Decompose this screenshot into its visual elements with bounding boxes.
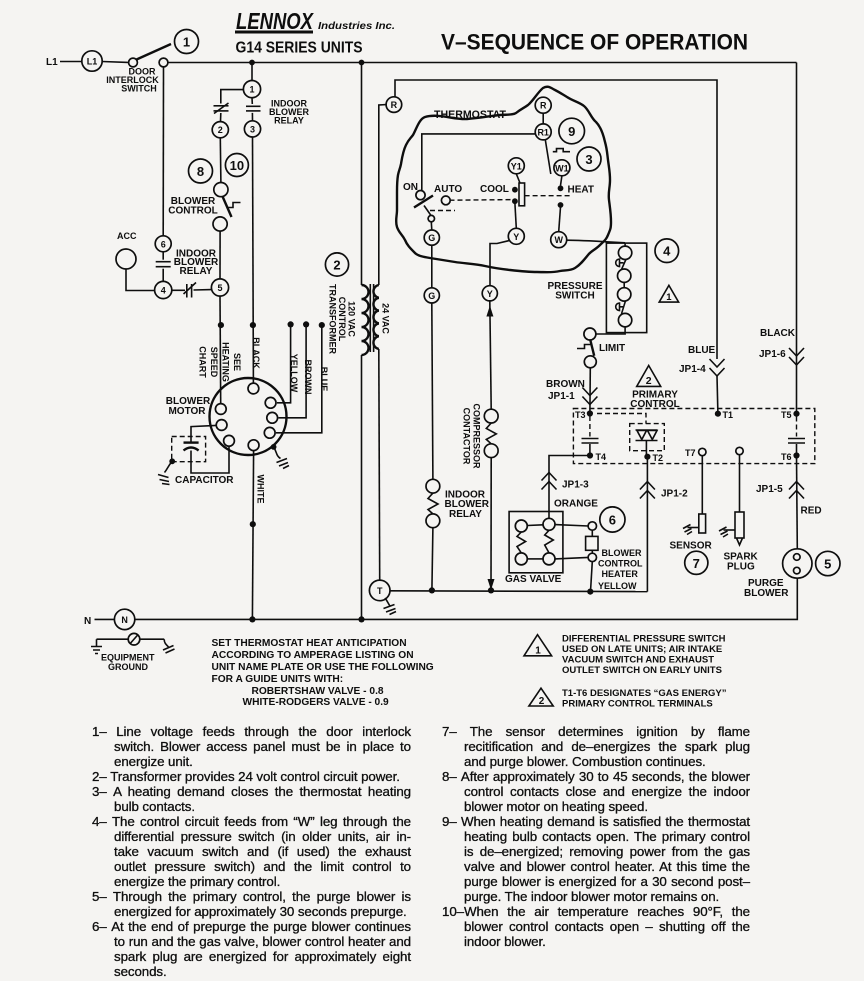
svg-text:T1: T1 [723, 410, 734, 420]
wire spark plug [739, 455, 741, 512]
svg-text:WHITE-RODGERS VALVE - 0.9: WHITE-RODGERS VALVE - 0.9 [243, 697, 390, 708]
warning triangle 1 [659, 285, 678, 303]
svg-text:OUTLET SWITCH ON EARLY UNITS: OUTLET SWITCH ON EARLY UNITS [562, 665, 722, 676]
balloon 1 [175, 30, 199, 54]
wire blower control to 5 [219, 231, 221, 279]
wire 24V common rail [390, 590, 647, 593]
svg-text:T3: T3 [575, 410, 586, 420]
terminal contact 4 [155, 281, 172, 298]
wire blue [276, 325, 322, 433]
wire T6 to purge blower [796, 456, 799, 549]
transformer T1 primary lead [361, 63, 363, 286]
terminal contact 6 [155, 236, 171, 252]
motor pin right-mid [267, 412, 278, 423]
motor pin left-upper [215, 404, 226, 415]
sensor symbol [683, 514, 706, 535]
ground at T [384, 598, 397, 615]
pressure switch flag 2 [616, 303, 623, 311]
svg-text:HEATER: HEATER [602, 569, 639, 579]
gas valve box [509, 512, 563, 573]
capacitor C1 wiring [191, 425, 216, 441]
svg-text:ROBERTSHAW VALVE - 0.8: ROBERTSHAW VALVE - 0.8 [252, 686, 384, 697]
wire W to pressure switch [567, 240, 625, 243]
node junction bus-relay1 [249, 60, 255, 66]
motor pin right-lower [264, 427, 275, 438]
svg-text:FOR A GUIDE UNITS WITH:: FOR A GUIDE UNITS WITH: [212, 674, 344, 685]
note differential pressure switch [562, 634, 726, 677]
svg-text:Y: Y [487, 289, 493, 299]
wire Y1 to bulb [516, 174, 520, 183]
wire G down [431, 245, 433, 288]
warning triangle note 2 [529, 688, 553, 707]
wire ACC to 4 [126, 269, 154, 291]
terminal N [114, 609, 134, 629]
pressure switch terminal 2 [618, 269, 631, 282]
wire ps 2-3 [623, 282, 625, 287]
wire yellow [277, 324, 291, 402]
terminal Y thermostat [508, 228, 524, 244]
node splice blue [319, 322, 325, 328]
wire R1 to fan switch [422, 134, 535, 190]
svg-text:SET THERMOSTAT HEAT ANTICIPATI: SET THERMOSTAT HEAT ANTICIPATION [212, 638, 407, 649]
motor pin top [248, 383, 259, 394]
svg-text:2: 2 [539, 696, 545, 707]
contact NO indoor blower relay (6-4) [156, 262, 171, 267]
gas valve coil 2 [543, 518, 555, 565]
svg-text:2: 2 [646, 375, 652, 387]
connector JP1-2 chevron [640, 482, 655, 499]
terminal contact 1 [243, 81, 260, 98]
node T3 [587, 410, 593, 416]
wire 5 down [219, 296, 222, 404]
svg-text:BLUE: BLUE [688, 345, 716, 356]
terminal T common [369, 580, 390, 601]
svg-text:24 VAC: 24 VAC [381, 303, 391, 334]
svg-text:GROUND: GROUND [108, 662, 148, 672]
svg-text:JP1-2: JP1-2 [661, 489, 688, 500]
wire L1 stub [60, 61, 82, 63]
node cool upper [512, 187, 518, 193]
node splice speed wire [218, 322, 224, 328]
svg-text:G14 SERIES UNITS: G14 SERIES UNITS [236, 40, 363, 57]
wire contact1 to NO contact [251, 98, 253, 104]
svg-text:10: 10 [230, 158, 244, 173]
connector JP1-4 chevron [710, 359, 725, 376]
svg-text:BROWN: BROWN [546, 379, 585, 390]
pressure switch arm 1 [622, 259, 627, 269]
wire T4 orange [549, 456, 590, 519]
svg-text:LIMIT: LIMIT [599, 343, 625, 354]
terminal spark output [736, 447, 743, 454]
balloon 5 [816, 551, 840, 575]
LENNOX logo [235, 8, 395, 34]
pressure switch arm 2 [622, 301, 626, 314]
transformer primary winding [362, 285, 369, 355]
svg-text:4: 4 [663, 244, 671, 259]
wire contact to 3 [251, 113, 253, 121]
wire to NC branch [221, 90, 244, 104]
transformer secondary winding [373, 285, 378, 349]
wire contact to 5 [194, 289, 212, 291]
equipment ground symbol [91, 633, 175, 653]
wire main 120V bus [168, 62, 797, 64]
terminal Y1 [508, 158, 524, 174]
svg-text:ON: ON [403, 182, 418, 193]
wire dashed T5 down [796, 417, 798, 437]
svg-text:G: G [428, 291, 435, 301]
svg-text:7: 7 [693, 556, 700, 571]
wire contact to T6 [796, 444, 798, 456]
svg-text:2: 2 [333, 258, 340, 273]
wire Y jog down [490, 241, 510, 286]
svg-text:SENSOR: SENSOR [670, 541, 713, 552]
svg-text:BLOWER: BLOWER [744, 588, 789, 599]
mercury bulb switch [519, 183, 525, 206]
svg-text:N: N [121, 615, 128, 625]
svg-text:YELLOW: YELLOW [289, 354, 299, 393]
arrow down on Y wire [488, 579, 495, 590]
wire contact to 2 [220, 113, 222, 122]
svg-text:T2: T2 [653, 453, 664, 463]
svg-text:3: 3 [250, 124, 255, 134]
limit switch [577, 328, 596, 368]
wire dashed T3 right [597, 414, 646, 424]
wire N stub [95, 618, 115, 620]
wire neutral rail [135, 618, 362, 620]
wire purge blower down to neutral [362, 578, 798, 619]
terminal R right [535, 97, 551, 113]
node Y common junction [488, 587, 494, 593]
pressure switch terminal 3 [618, 288, 631, 301]
primary control box dashed [573, 409, 814, 464]
contact NC indoor blower relay (1-2) [214, 103, 229, 114]
node transformer neutral junction [358, 616, 364, 622]
terminal G lower [424, 288, 439, 303]
svg-text:BLACK: BLACK [251, 337, 261, 369]
node splice white [250, 521, 256, 527]
node T4 [587, 452, 593, 458]
wire pivot to G [430, 222, 433, 230]
fan switch dashed throw [430, 210, 455, 212]
svg-text:1: 1 [666, 292, 672, 303]
motor pin left-mid [216, 420, 227, 431]
svg-text:RELAY: RELAY [180, 266, 213, 277]
wire brown [279, 324, 307, 417]
svg-text:L1: L1 [87, 57, 98, 67]
node splice brown [303, 321, 309, 327]
node white junction [249, 616, 255, 622]
svg-text:3: 3 [585, 152, 592, 167]
fan switch ON contact [416, 191, 425, 200]
wire ps top stub [624, 243, 626, 246]
compressor contactor coil K2 [484, 409, 498, 457]
indoor blower relay coil K1 [426, 479, 440, 527]
svg-text:2: 2 [218, 125, 223, 135]
svg-text:5: 5 [217, 283, 222, 293]
svg-text:JP1-1: JP1-1 [548, 391, 575, 402]
svg-text:RED: RED [801, 506, 822, 517]
svg-text:JP1-6: JP1-6 [759, 349, 786, 360]
note T1-T6 designates [562, 688, 727, 710]
node splice yellow [288, 321, 294, 327]
motor pin left-lower [224, 435, 235, 446]
svg-text:5: 5 [824, 557, 831, 572]
svg-text:T1-T6 DESIGNATES “GAS ENERGY”: T1-T6 DESIGNATES “GAS ENERGY” [562, 688, 727, 699]
svg-text:PRIMARY CONTROL TERMINALS: PRIMARY CONTROL TERMINALS [562, 699, 713, 710]
node T2 [644, 454, 650, 460]
arrow up on Y wire [486, 306, 493, 317]
wire heater to common [591, 562, 593, 592]
blower control switch [213, 183, 241, 232]
svg-text:1: 1 [249, 85, 254, 95]
wire W1 to heat node [561, 176, 562, 186]
terminal W1 [554, 160, 570, 176]
wire dashed auto to cool [450, 199, 513, 202]
pressure switch terminal 1 [618, 246, 631, 259]
warning triangle 2 [637, 366, 661, 388]
svg-text:JP1-4: JP1-4 [679, 364, 706, 375]
wire gas valve to heater top [555, 525, 588, 526]
svg-text:T5: T5 [781, 410, 792, 420]
svg-text:SEEHEATINGSPEEDCHART: SEEHEATINGSPEEDCHART [197, 342, 242, 382]
motor frame ground [271, 444, 289, 469]
capacitor case ground [158, 458, 175, 484]
node G common junction [429, 587, 435, 593]
notes column left [92, 724, 411, 979]
terminal T7 sensor [699, 448, 706, 455]
pressure switch terminal 4 [618, 313, 631, 326]
svg-text:R: R [391, 100, 398, 110]
svg-text:G: G [428, 233, 435, 243]
svg-text:Y1: Y1 [511, 161, 522, 171]
svg-text:JP1-5: JP1-5 [756, 484, 783, 495]
svg-text:WHITE: WHITE [256, 475, 266, 504]
wire bulb to Y [515, 203, 516, 228]
fan switch lever [414, 196, 433, 208]
wire contact to 4 [162, 269, 164, 282]
terminal Y lower [482, 286, 497, 301]
node T5 [793, 411, 799, 417]
node T1 [715, 411, 721, 417]
motor pin bottom [248, 440, 259, 451]
svg-text:YELLOW: YELLOW [598, 581, 637, 591]
node heat lower [558, 202, 564, 208]
balloon 2 [325, 253, 348, 276]
triac assembly [630, 424, 665, 457]
transformer secondary top lead [379, 105, 386, 285]
svg-text:9: 9 [568, 124, 575, 139]
wire black drop right side [796, 63, 798, 414]
connector JP1-1 chevron [582, 388, 597, 405]
node junction bus-transformer [359, 60, 365, 66]
svg-text:V–SEQUENCE OF OPERATION: V–SEQUENCE OF OPERATION [441, 30, 748, 55]
wire limit to T3 [589, 368, 591, 414]
thermostat enclosure blob [396, 87, 611, 273]
svg-text:R1: R1 [537, 127, 549, 137]
wire heat to W [559, 207, 561, 232]
svg-text:ACC: ACC [117, 231, 137, 241]
svg-text:BLACK: BLACK [760, 328, 796, 339]
svg-text:BROWN: BROWN [303, 360, 313, 395]
pressure switch flag 1 [616, 259, 624, 267]
wire contact to T4 [589, 444, 591, 456]
balloon 8 [189, 159, 213, 183]
svg-text:VACUUM SWITCH AND EXHAUST: VACUUM SWITCH AND EXHAUST [562, 655, 714, 666]
balloon 10 [225, 154, 248, 177]
terminal contact 5 [211, 279, 228, 296]
capacitor case dashed [172, 437, 206, 462]
terminal contact 2 [212, 122, 228, 138]
wire G to relay coil [432, 303, 433, 479]
svg-text:SWITCH: SWITCH [121, 84, 157, 94]
terminal ACC [116, 249, 136, 269]
wire door interlock down to relay contact 6 [162, 67, 164, 236]
wire 2 down to blower control [219, 138, 222, 183]
svg-text:GAS VALVE: GAS VALVE [505, 574, 562, 585]
notes column right [442, 724, 750, 949]
balloon 3 [577, 147, 601, 171]
wire gas valve bottom to heater bottom [555, 557, 588, 559]
node yellow junction [587, 589, 593, 595]
svg-text:1: 1 [535, 646, 541, 657]
svg-text:USED ON LATE UNITS; AIR INTAKE: USED ON LATE UNITS; AIR INTAKE [562, 644, 722, 655]
blower control heater terminal top [588, 522, 596, 530]
svg-text:L1: L1 [46, 57, 58, 68]
contact primary T5-T6 [788, 439, 805, 444]
fan switch pivot [428, 215, 434, 221]
svg-text:N: N [84, 616, 91, 627]
contact NC indoor blower relay (4-5) [184, 283, 197, 298]
svg-text:120 VACCONTROLTRANSFORMER: 120 VACCONTROLTRANSFORMER [327, 284, 356, 354]
note set thermostat heat anticipation [212, 638, 434, 708]
wire gas valve top link [527, 524, 543, 527]
svg-text:BLUE: BLUE [319, 367, 329, 392]
contact primary T3-T4 [582, 439, 599, 444]
svg-text:T7: T7 [685, 448, 696, 458]
terminal L1 [82, 51, 102, 71]
svg-text:BLOWER: BLOWER [602, 548, 642, 558]
svg-text:Industries Inc.: Industries Inc. [318, 20, 395, 32]
terminal G thermostat [424, 230, 439, 245]
svg-text:CONTROL: CONTROL [168, 206, 217, 217]
contact NO indoor blower relay (1-3) [246, 106, 261, 111]
svg-text:DIFFERENTIAL PRESSURE SWITCH: DIFFERENTIAL PRESSURE SWITCH [562, 634, 726, 645]
svg-text:PLUG: PLUG [727, 562, 755, 573]
svg-text:RELAY: RELAY [449, 509, 482, 520]
wire R bus 24V [395, 80, 717, 359]
transformer secondary bottom lead [378, 349, 381, 580]
wire relay1 feed down [251, 63, 253, 81]
wire white down [252, 451, 253, 620]
svg-text:COMPRESSORCONTACTOR: COMPRESSORCONTACTOR [462, 403, 482, 469]
node splice black wire [250, 322, 256, 328]
balloon 7 [685, 551, 708, 574]
wire sensor [701, 456, 703, 514]
wire gas valve bottom link [527, 558, 543, 560]
wire dashed bulb to heat [525, 195, 572, 197]
svg-text:COOL: COOL [480, 184, 509, 195]
svg-text:ACCORDING TO AMPERAGE LISTING: ACCORDING TO AMPERAGE LISTING ON [212, 650, 414, 661]
balloon 9 [559, 118, 585, 144]
svg-text:6: 6 [161, 239, 166, 249]
svg-text:Y: Y [513, 232, 519, 242]
svg-text:4: 4 [161, 286, 166, 296]
svg-text:W: W [554, 235, 563, 245]
door interlock switch S1 [129, 44, 171, 67]
purge blower motor [783, 549, 812, 578]
svg-text:HEAT: HEAT [568, 185, 594, 196]
balloon 6 [600, 507, 625, 532]
terminal W [551, 232, 567, 248]
svg-text:8: 8 [197, 164, 204, 179]
connector JP1-5 chevron [789, 482, 804, 499]
node heat upper [558, 185, 564, 191]
svg-text:T6: T6 [781, 452, 792, 462]
blower motor B1 [210, 378, 287, 455]
fan switch AUTO contact [441, 196, 450, 205]
wire 3 down black [252, 137, 255, 383]
svg-text:UNIT NAME PLATE OR USE THE FOL: UNIT NAME PLATE OR USE THE FOLLOWING [212, 662, 434, 673]
balloon 4 [655, 239, 679, 263]
terminal contact 3 [244, 121, 260, 137]
terminal R1 [535, 124, 551, 140]
svg-text:CAPACITOR: CAPACITOR [175, 475, 234, 486]
wire T2 down [646, 457, 648, 592]
wire 4 to NC contact [172, 289, 185, 291]
svg-text:LENNOX: LENNOX [236, 8, 314, 34]
svg-text:SWITCH: SWITCH [555, 291, 594, 302]
wire blue to T1 [716, 376, 719, 414]
wire Y down with arrow [490, 301, 491, 409]
svg-text:W1: W1 [555, 163, 569, 173]
svg-text:T4: T4 [596, 452, 607, 462]
wire coil to common [432, 528, 433, 591]
svg-text:AUTO: AUTO [434, 184, 462, 195]
connector JP1-6 chevron [789, 348, 804, 365]
warning triangle note 1 [524, 635, 552, 657]
wire contactor to common with arrow [490, 458, 492, 591]
wire dashed T3 down [589, 416, 591, 437]
svg-text:MOTOR: MOTOR [168, 406, 206, 417]
terminal R left [386, 97, 402, 113]
spark plug symbol [719, 512, 744, 545]
connector JP1-3 chevron [542, 473, 557, 490]
svg-text:T: T [377, 586, 383, 596]
pressure switch box [606, 243, 646, 333]
svg-text:THERMOSTAT: THERMOSTAT [434, 109, 506, 121]
motor pin right-upper [265, 397, 276, 408]
svg-text:RELAY: RELAY [274, 116, 304, 126]
thermostat heating bulb contact R1-W1 [545, 140, 570, 174]
gas valve coil 1 [515, 520, 527, 565]
node cool lower [512, 198, 518, 204]
wire 6 to contact [162, 252, 164, 260]
blower control heater element [586, 530, 598, 553]
transformer core [369, 284, 371, 352]
node T6 [793, 452, 799, 458]
capacitor C1 [184, 443, 199, 451]
svg-text:CONTROL: CONTROL [598, 558, 643, 568]
svg-text:R: R [540, 101, 547, 111]
transformer primary bottom lead [361, 355, 363, 619]
blower control heater terminal bottom [588, 553, 596, 561]
svg-text:JP1-3: JP1-3 [562, 480, 589, 491]
wire ps bottom to limit [596, 327, 625, 334]
wire R to R1 [542, 113, 544, 124]
svg-text:ORANGE: ORANGE [554, 499, 598, 510]
svg-text:1: 1 [183, 35, 190, 50]
svg-text:6: 6 [609, 513, 616, 528]
